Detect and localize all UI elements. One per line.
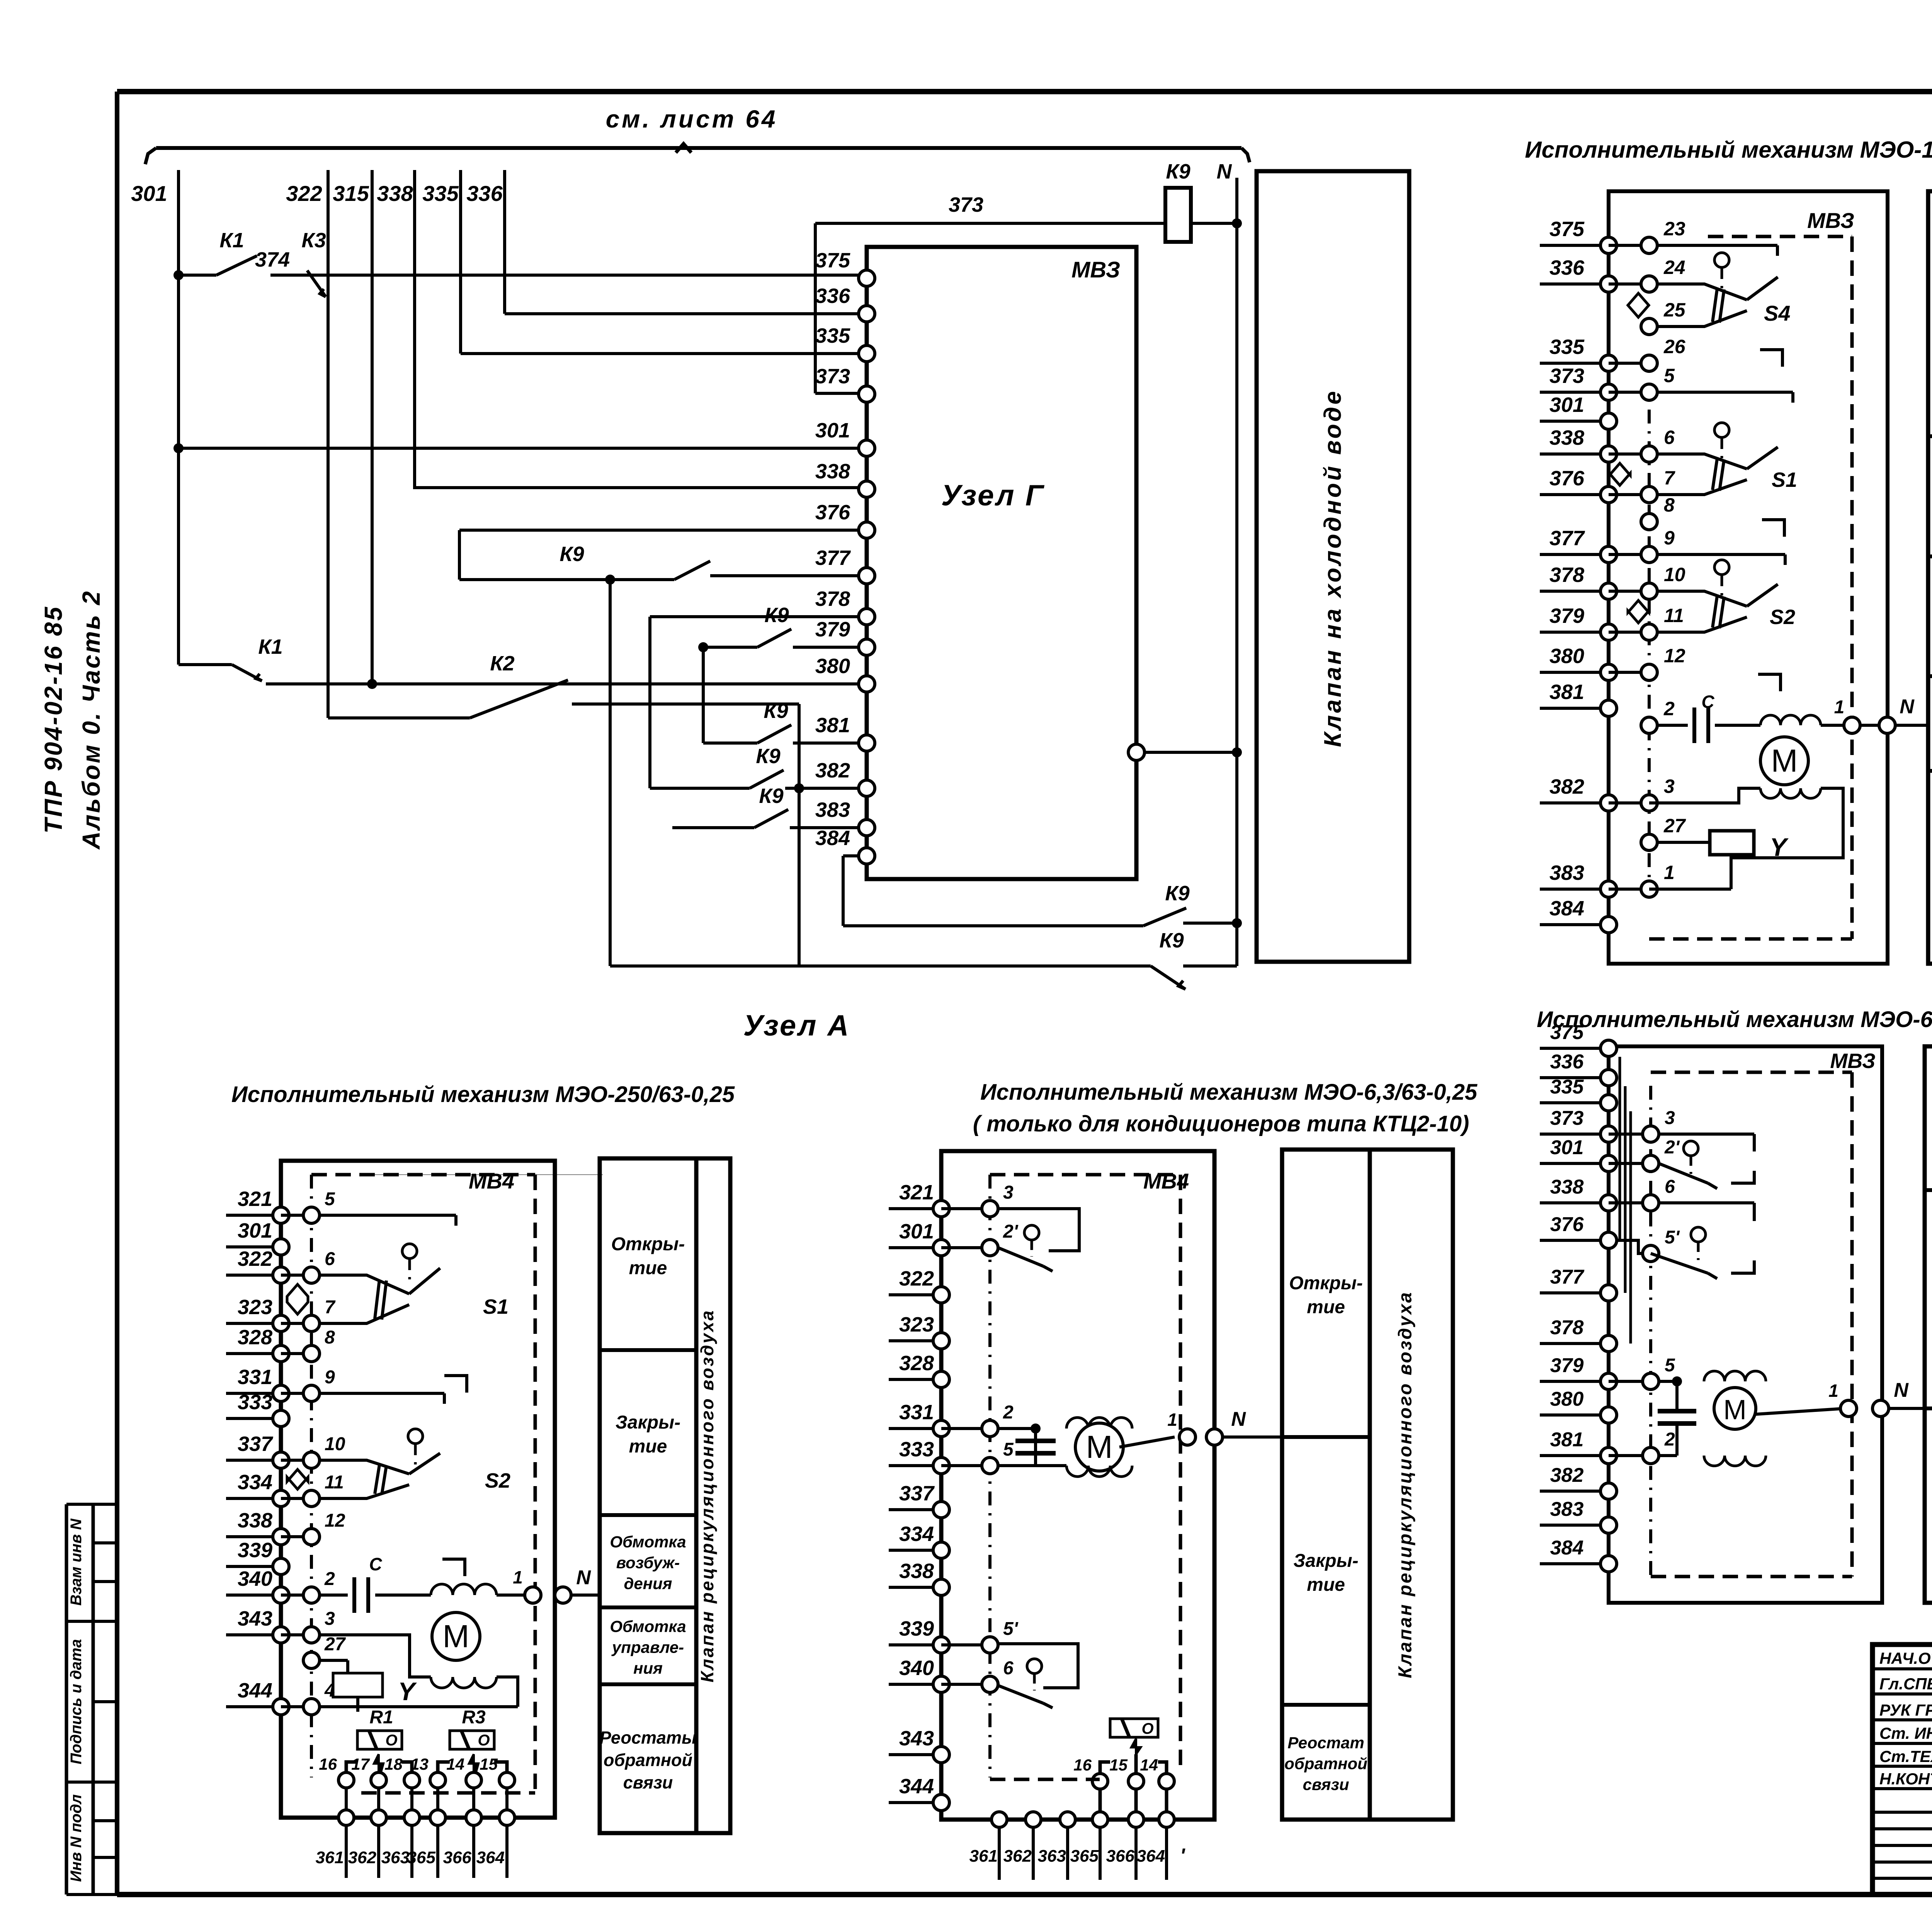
svg-text:10: 10 [1664, 564, 1685, 585]
svg-text:340: 340 [238, 1567, 272, 1590]
svg-text:дения: дения [624, 1574, 672, 1592]
svg-text:301: 301 [899, 1220, 934, 1243]
svg-text:Реостаты: Реостаты [600, 1728, 697, 1748]
svg-text:К1: К1 [219, 229, 244, 252]
svg-text:382: 382 [1549, 775, 1584, 798]
svg-text:343: 343 [238, 1607, 272, 1630]
svg-text:Клапан рециркуляционного воз: Клапан рециркуляционного воздуха [1395, 1291, 1416, 1679]
svg-text:375: 375 [1549, 218, 1585, 241]
svg-text:6: 6 [1003, 1658, 1014, 1679]
svg-text:14: 14 [1140, 1756, 1158, 1774]
svg-text:6: 6 [1665, 1177, 1675, 1197]
svg-text:2: 2 [1664, 1429, 1675, 1450]
svg-text:15: 15 [1109, 1756, 1128, 1774]
svg-text:2': 2' [1003, 1221, 1019, 1242]
svg-text:2: 2 [1663, 698, 1675, 719]
svg-text:К3: К3 [301, 229, 326, 252]
svg-text:380: 380 [815, 655, 850, 678]
svg-text:связи: связи [623, 1773, 673, 1793]
svg-text:340: 340 [899, 1656, 934, 1680]
svg-text:343: 343 [899, 1727, 934, 1750]
svg-text:338: 338 [815, 460, 850, 483]
svg-text:N: N [576, 1566, 591, 1589]
svg-text:23: 23 [1663, 218, 1685, 240]
svg-text:25: 25 [1663, 299, 1686, 321]
svg-text:344: 344 [899, 1775, 934, 1798]
svg-text:1: 1 [1828, 1381, 1838, 1401]
svg-text:16: 16 [319, 1755, 337, 1773]
svg-text:376: 376 [1550, 1213, 1584, 1236]
svg-text:Ст. ИНЖ: Ст. ИНЖ [1879, 1724, 1932, 1742]
svg-text:339: 339 [238, 1539, 272, 1562]
svg-text:11: 11 [1664, 605, 1684, 626]
svg-text:возбуж-: возбуж- [616, 1553, 680, 1571]
svg-text:335: 335 [1550, 1076, 1584, 1098]
svg-text:384: 384 [1549, 897, 1584, 920]
svg-text:Реостат: Реостат [1287, 1733, 1364, 1752]
svg-text:Инв N подл: Инв N подл [68, 1794, 85, 1882]
svg-text:Н.КОНТР: Н.КОНТР [1879, 1770, 1932, 1788]
svg-text:МВЗ: МВЗ [1071, 257, 1120, 282]
svg-text:9: 9 [325, 1367, 335, 1388]
svg-text:17: 17 [351, 1755, 370, 1773]
svg-text:11: 11 [325, 1472, 344, 1493]
svg-text:333: 333 [238, 1391, 272, 1414]
svg-text:5: 5 [1664, 365, 1675, 386]
svg-text:3: 3 [1665, 1108, 1675, 1128]
svg-text:Клапан рециркуляционного воз: Клапан рециркуляционного воздуха [697, 1309, 717, 1682]
svg-text:373: 373 [949, 193, 983, 216]
svg-text:384: 384 [1550, 1537, 1584, 1559]
svg-text:7: 7 [1664, 467, 1675, 489]
svg-text:Закры-: Закры- [616, 1412, 680, 1433]
svg-text:Исполнительный механизм МЭО-: Исполнительный механизм МЭО-250/63-0,25 [231, 1082, 735, 1107]
svg-text:5': 5' [1003, 1619, 1019, 1639]
svg-text:S1: S1 [1772, 468, 1797, 492]
svg-text:336: 336 [1550, 1051, 1584, 1073]
svg-text:362: 362 [348, 1848, 377, 1867]
svg-text:334: 334 [238, 1471, 272, 1494]
svg-text:384: 384 [815, 827, 850, 850]
svg-text:337: 337 [238, 1432, 274, 1456]
svg-text:S2: S2 [485, 1469, 510, 1492]
svg-text:379: 379 [815, 618, 850, 641]
svg-text:10: 10 [325, 1434, 345, 1454]
svg-text:N: N [1894, 1379, 1909, 1401]
svg-text:N: N [1900, 696, 1915, 718]
svg-text:МВ4: МВ4 [469, 1169, 514, 1193]
svg-text:К1: К1 [258, 635, 282, 658]
svg-text:337: 337 [899, 1482, 935, 1505]
svg-text:S2: S2 [1770, 605, 1795, 629]
svg-text:321: 321 [899, 1181, 934, 1204]
svg-text:24: 24 [1663, 257, 1685, 278]
svg-text:НАЧ.ОТД: НАЧ.ОТД [1879, 1649, 1932, 1667]
svg-text:364: 364 [476, 1848, 505, 1867]
svg-text:328: 328 [899, 1352, 934, 1375]
svg-text:M: M [1771, 743, 1798, 779]
svg-text:3: 3 [325, 1609, 335, 1629]
svg-text:S4: S4 [1764, 301, 1791, 325]
svg-text:16: 16 [1073, 1756, 1092, 1774]
svg-text:381: 381 [815, 714, 850, 737]
svg-text:МВЗ: МВЗ [1807, 208, 1854, 233]
svg-text:( только для кондиционеров: ( только для кондиционеров типа КТЦ2-10) [973, 1111, 1469, 1136]
svg-text:378: 378 [1549, 563, 1584, 587]
svg-text:1: 1 [1834, 697, 1845, 718]
svg-text:301: 301 [131, 181, 167, 206]
svg-text:Ст.ТЕХН.: Ст.ТЕХН. [1879, 1747, 1932, 1765]
svg-text:331: 331 [238, 1366, 272, 1389]
svg-text:тие: тие [629, 1436, 667, 1457]
svg-text:335: 335 [815, 324, 850, 347]
svg-text:Альбом 0. Часть 2: Альбом 0. Часть 2 [77, 590, 105, 850]
svg-text:379: 379 [1549, 604, 1584, 628]
svg-text:1: 1 [1167, 1410, 1177, 1430]
svg-text:К9: К9 [1165, 882, 1189, 905]
svg-text:378: 378 [815, 587, 850, 611]
svg-text:Подпись и дата: Подпись и дата [68, 1639, 85, 1764]
svg-text:1: 1 [513, 1567, 523, 1587]
svg-text:323: 323 [899, 1313, 934, 1336]
svg-text:382: 382 [1550, 1464, 1584, 1486]
svg-text:13: 13 [410, 1755, 429, 1773]
svg-text:5': 5' [1665, 1227, 1680, 1248]
svg-text:338: 338 [899, 1560, 934, 1583]
svg-text:': ' [1180, 1845, 1185, 1867]
svg-text:2': 2' [1664, 1137, 1680, 1158]
svg-text:27: 27 [1663, 815, 1686, 837]
svg-text:2: 2 [1003, 1402, 1014, 1423]
svg-text:322: 322 [899, 1267, 934, 1290]
svg-text:R1: R1 [369, 1707, 393, 1728]
svg-text:322: 322 [286, 181, 322, 206]
svg-text:К9: К9 [764, 604, 789, 627]
svg-text:ния: ния [633, 1659, 663, 1677]
svg-text:S1: S1 [483, 1295, 509, 1318]
svg-text:376: 376 [1549, 467, 1585, 490]
svg-text:N: N [1217, 160, 1232, 183]
svg-text:381: 381 [1549, 680, 1584, 704]
svg-text:ТПР 904-02-16 85: ТПР 904-02-16 85 [39, 605, 67, 833]
svg-text:334: 334 [899, 1522, 934, 1546]
svg-text:N: N [1231, 1408, 1246, 1430]
svg-text:обратной: обратной [1284, 1754, 1367, 1772]
svg-text:Откры-: Откры- [1289, 1273, 1363, 1293]
svg-text:К9: К9 [756, 745, 780, 768]
svg-text:6: 6 [1664, 427, 1675, 448]
svg-text:15: 15 [480, 1755, 498, 1773]
svg-text:К9: К9 [1159, 929, 1184, 952]
svg-text:26: 26 [1663, 336, 1686, 357]
svg-text:M: M [442, 1618, 469, 1654]
svg-text:Y: Y [398, 1677, 417, 1706]
svg-text:301: 301 [238, 1219, 272, 1242]
svg-text:К2: К2 [490, 652, 514, 675]
svg-text:361: 361 [316, 1848, 344, 1867]
svg-text:Закры-: Закры- [1293, 1551, 1358, 1571]
svg-text:363: 363 [381, 1848, 410, 1867]
svg-text:5: 5 [1665, 1355, 1675, 1376]
svg-text:322: 322 [238, 1247, 272, 1270]
svg-text:374: 374 [255, 248, 290, 271]
svg-text:R3: R3 [462, 1707, 486, 1728]
svg-text:тие: тие [1307, 1297, 1345, 1317]
svg-text:тие: тие [629, 1258, 667, 1278]
svg-text:27: 27 [324, 1634, 346, 1655]
svg-text:323: 323 [238, 1296, 272, 1319]
svg-text:344: 344 [238, 1679, 272, 1702]
svg-text:О: О [478, 1732, 490, 1749]
svg-text:362: 362 [1003, 1847, 1032, 1866]
svg-text:338: 338 [1550, 1176, 1584, 1198]
svg-text:373: 373 [815, 365, 850, 388]
svg-text:12: 12 [1664, 645, 1685, 667]
svg-text:M: M [1086, 1429, 1112, 1465]
svg-text:С: С [369, 1554, 382, 1574]
svg-text:377: 377 [1549, 527, 1585, 550]
svg-text:9: 9 [1664, 527, 1675, 549]
svg-text:377: 377 [1550, 1266, 1585, 1288]
svg-text:363: 363 [1038, 1847, 1066, 1866]
svg-text:335: 335 [1549, 335, 1585, 359]
svg-text:301: 301 [1549, 393, 1584, 417]
svg-text:336: 336 [1549, 256, 1585, 279]
svg-text:Узел Г: Узел Г [941, 479, 1045, 512]
svg-text:Y: Y [1770, 833, 1789, 861]
svg-text:381: 381 [1550, 1429, 1584, 1451]
svg-text:1: 1 [1664, 862, 1675, 883]
svg-text:365: 365 [1070, 1847, 1099, 1866]
svg-text:333: 333 [899, 1438, 934, 1461]
svg-text:Исполнительный механизм МЭО-1: Исполнительный механизм МЭО-100/63-0,63 [1525, 137, 1932, 163]
svg-text:365: 365 [407, 1848, 436, 1867]
svg-text:3: 3 [1003, 1182, 1014, 1203]
svg-text:тие: тие [1307, 1575, 1345, 1595]
svg-text:Узел А: Узел А [743, 1009, 850, 1042]
svg-text:375: 375 [815, 249, 850, 272]
svg-text:336: 336 [466, 181, 503, 206]
svg-text:301: 301 [815, 419, 850, 442]
svg-text:управле-: управле- [611, 1638, 684, 1656]
svg-text:366: 366 [443, 1848, 472, 1867]
svg-text:РУК ГР.: РУК ГР. [1879, 1701, 1932, 1719]
svg-text:339: 339 [899, 1617, 934, 1640]
svg-text:338: 338 [238, 1509, 272, 1532]
svg-text:6: 6 [325, 1249, 335, 1269]
svg-text:3: 3 [1664, 776, 1675, 797]
svg-text:МВЗ: МВЗ [1830, 1049, 1875, 1073]
svg-text:18: 18 [384, 1755, 403, 1773]
svg-text:5: 5 [325, 1189, 335, 1209]
svg-text:380: 380 [1549, 645, 1584, 668]
svg-text:8: 8 [325, 1327, 335, 1348]
svg-text:С: С [1701, 692, 1714, 712]
svg-text:382: 382 [815, 759, 850, 782]
svg-text:Клапан на холодной воде: Клапан на холодной воде [1320, 389, 1346, 747]
svg-text:Откры-: Откры- [611, 1234, 685, 1254]
svg-text:обратной: обратной [604, 1750, 692, 1770]
svg-text:383: 383 [1549, 861, 1584, 884]
svg-text:5: 5 [1003, 1439, 1014, 1460]
svg-text:383: 383 [1550, 1498, 1584, 1520]
svg-text:338: 338 [1549, 426, 1584, 449]
svg-text:361: 361 [969, 1847, 998, 1866]
svg-text:К9: К9 [560, 543, 584, 566]
svg-text:К9: К9 [764, 699, 788, 723]
svg-text:О: О [1141, 1720, 1153, 1737]
svg-text:Гл.СПЕЦ.: Гл.СПЕЦ. [1879, 1675, 1932, 1693]
svg-text:см. лист 64: см. лист 64 [606, 105, 778, 133]
svg-text:7: 7 [325, 1297, 336, 1318]
svg-text:331: 331 [899, 1401, 934, 1424]
svg-text:373: 373 [1549, 364, 1584, 388]
svg-text:301: 301 [1550, 1136, 1584, 1159]
svg-text:366: 366 [1106, 1847, 1135, 1866]
svg-text:8: 8 [1664, 494, 1675, 516]
svg-text:О: О [385, 1732, 397, 1749]
svg-text:Обмотка: Обмотка [610, 1617, 686, 1635]
svg-text:К9: К9 [1166, 160, 1190, 183]
svg-text:К9: К9 [759, 784, 783, 808]
svg-text:связи: связи [1303, 1775, 1349, 1793]
svg-text:379: 379 [1550, 1354, 1584, 1377]
svg-text:2: 2 [324, 1569, 335, 1589]
svg-text:Обмотка: Обмотка [610, 1532, 686, 1551]
svg-text:377: 377 [815, 546, 851, 570]
svg-text:335: 335 [422, 181, 459, 206]
svg-text:M: M [1723, 1395, 1747, 1425]
svg-text:383: 383 [815, 798, 850, 821]
svg-text:336: 336 [815, 284, 850, 308]
svg-text:375: 375 [1550, 1021, 1584, 1044]
svg-text:315: 315 [333, 181, 369, 206]
svg-text:321: 321 [238, 1187, 272, 1211]
svg-text:14: 14 [446, 1755, 464, 1773]
svg-text:338: 338 [377, 181, 413, 206]
svg-text:12: 12 [325, 1510, 345, 1531]
svg-text:380: 380 [1550, 1388, 1584, 1410]
svg-text:Исполнительный механизм МЭО-: Исполнительный механизм МЭО-6,3/63-0,25 [1537, 1007, 1932, 1032]
svg-text:Исполнительный механизм МЭО-: Исполнительный механизм МЭО-6,3/63-0,25 [980, 1080, 1478, 1105]
svg-text:364: 364 [1137, 1847, 1165, 1866]
svg-text:376: 376 [815, 501, 850, 524]
svg-text:Взам инв N: Взам инв N [68, 1518, 85, 1605]
svg-text:373: 373 [1550, 1107, 1584, 1129]
svg-text:378: 378 [1550, 1316, 1584, 1339]
svg-text:328: 328 [238, 1326, 272, 1349]
